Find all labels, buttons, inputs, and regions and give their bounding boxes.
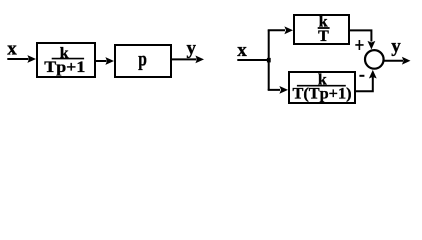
arrowhead into block G2: [105, 57, 114, 65]
wire: summing junction output: [384, 60, 404, 62]
plus sign (summing junction + input): [355, 40, 363, 50]
arrowhead into block G1: [27, 55, 36, 63]
wire: input line into block G1: [7, 58, 28, 60]
svg-text:T(Tp+1): T(Tp+1): [293, 86, 352, 103]
svg-text:x: x: [7, 39, 17, 60]
minus sign (summing junction - input): [359, 75, 364, 77]
svg-text:Tp+1: Tp+1: [44, 59, 85, 76]
node junction (branch point): [267, 58, 271, 63]
arrowhead into block G4: [279, 86, 288, 94]
svg-text:T: T: [318, 28, 329, 45]
wire: branch vertical line: [268, 30, 270, 90]
wire: bottom branch to block G4: [269, 89, 280, 90]
wire: G2 output: [172, 58, 197, 60]
fraction bar (G1): [52, 58, 84, 60]
svg-text:x: x: [237, 40, 247, 61]
arrowhead into summing junction top (down): [368, 41, 376, 50]
block G2 (p): [115, 45, 171, 77]
svg-text:p: p: [138, 47, 147, 70]
block G3 (k/T): [294, 15, 349, 44]
wire: top branch to block G3: [268, 29, 285, 31]
wire: G1 to G2: [96, 60, 107, 62]
arrowhead left diagram output: [195, 56, 204, 64]
wire: right input line: [237, 59, 268, 61]
svg-text:y: y: [187, 38, 197, 59]
fraction bar (G4): [297, 85, 346, 87]
wire: G3 output to summing junction: [350, 30, 371, 41]
fraction bar (G3): [318, 27, 330, 29]
wire: G4 output to summing junction: [356, 77, 373, 91]
block G4 (k/(T(Tp+1))): [289, 72, 355, 103]
arrowhead into summing junction bottom (up): [369, 70, 377, 79]
arrowhead right diagram output: [402, 57, 411, 65]
arrowhead into block G3: [284, 26, 293, 34]
block G1 (k/(Tp+1)): [37, 43, 95, 77]
svg-text:y: y: [391, 36, 401, 57]
summing junction circle: [365, 50, 384, 69]
